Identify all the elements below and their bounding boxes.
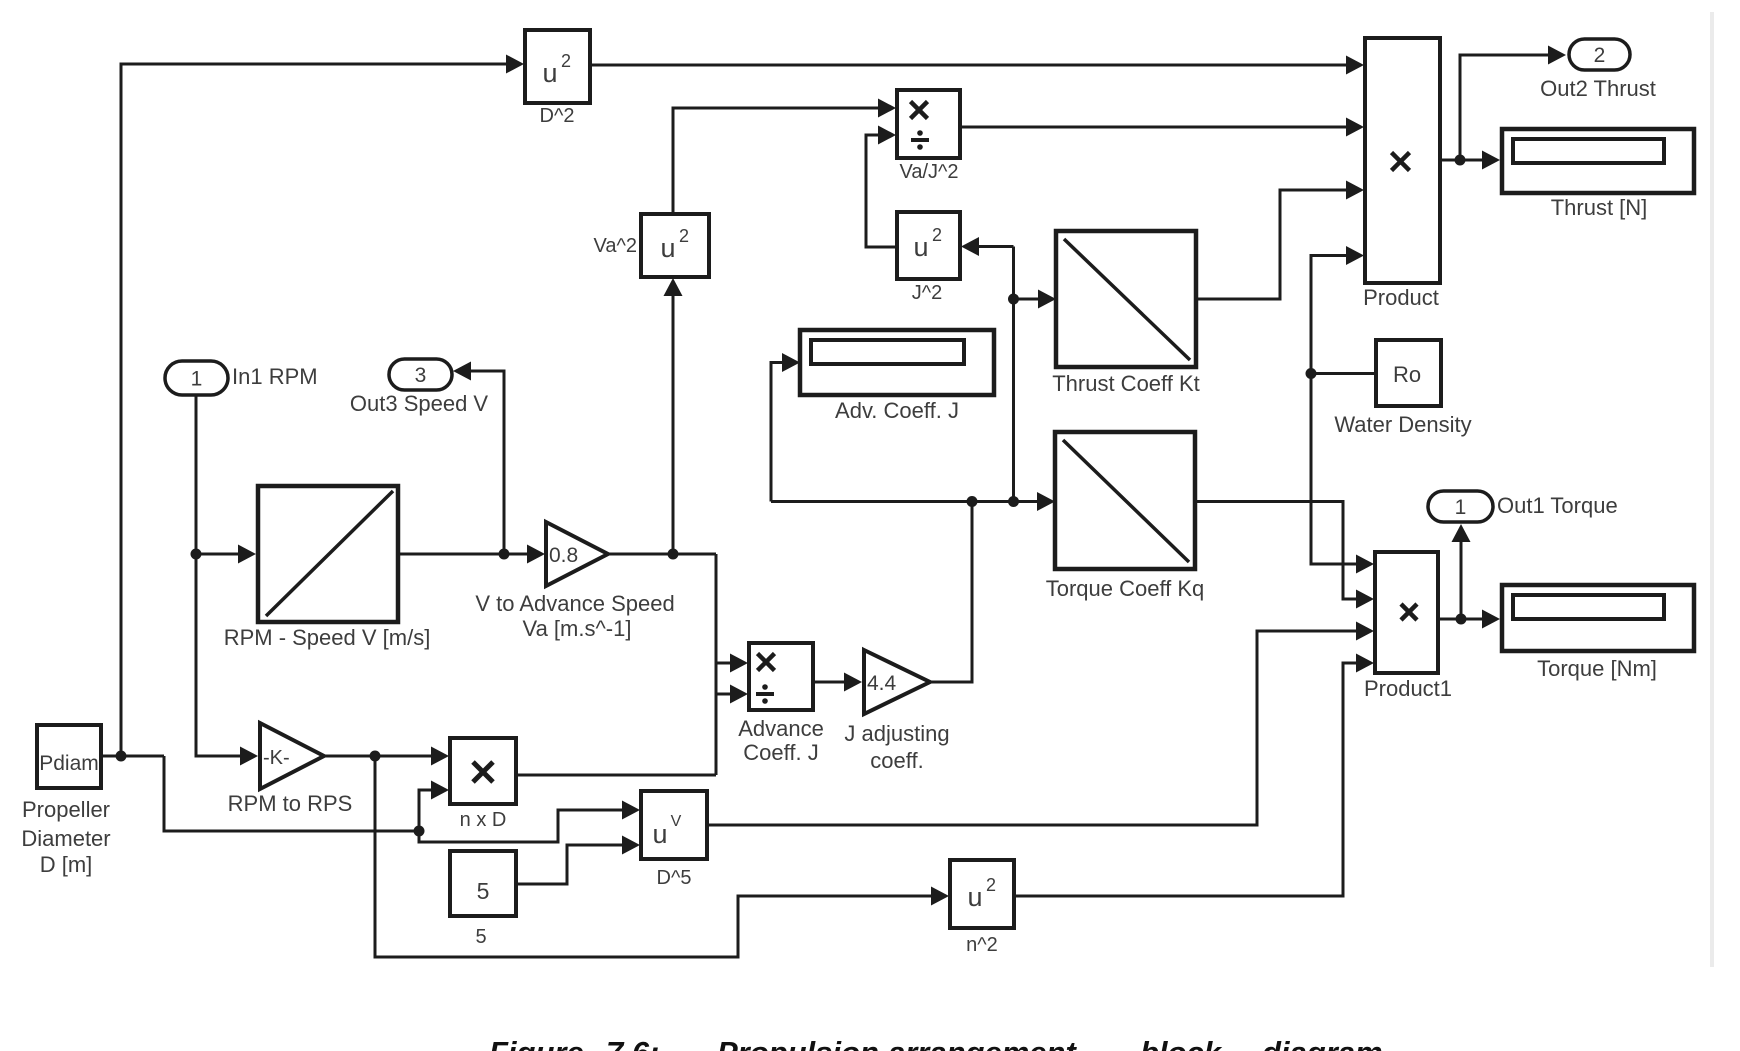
svg-text:arrangement: arrangement bbox=[888, 1035, 1077, 1051]
gain -K- RPM to RPS bbox=[228, 723, 353, 816]
block Product multiplier bbox=[1363, 38, 1440, 310]
svg-text:Va/J^2: Va/J^2 bbox=[899, 161, 958, 183]
svg-text:0.8: 0.8 bbox=[549, 544, 578, 567]
svg-text:Pdiam: Pdiam bbox=[39, 752, 99, 775]
svg-text:RPM to RPS: RPM to RPS bbox=[228, 791, 353, 816]
wire density up branch to Product input 4 bbox=[1311, 246, 1364, 374]
wire Product output junction bbox=[1440, 151, 1500, 170]
gain 4.4 J adjusting coeff bbox=[844, 650, 949, 773]
wire speed V up and left into Out3 bbox=[453, 362, 504, 555]
wire Product branch up to Out2 bbox=[1460, 46, 1566, 161]
block constant 5 bbox=[450, 851, 516, 948]
svg-text:Va^2: Va^2 bbox=[594, 235, 638, 257]
svg-text:5: 5 bbox=[477, 878, 490, 904]
svg-text:Figure: Figure bbox=[489, 1035, 584, 1051]
block Ro water density constant bbox=[1334, 340, 1471, 437]
svg-text:Thrust [N]: Thrust [N] bbox=[1551, 195, 1648, 220]
svg-text:u: u bbox=[967, 882, 982, 912]
svg-text:5: 5 bbox=[475, 926, 486, 948]
wire n^2 output to Product1 input 4 bbox=[1014, 654, 1374, 897]
svg-text:Ro: Ro bbox=[1393, 362, 1421, 387]
svg-text:Thrust Coeff Kt: Thrust Coeff Kt bbox=[1052, 371, 1200, 396]
port In1 RPM bbox=[165, 361, 318, 395]
svg-text:D [m]: D [m] bbox=[40, 852, 93, 877]
block Torque Coeff Kq lookup table bbox=[1046, 432, 1205, 601]
wire Va^2 output up and right into Va/J^2 input 1 bbox=[673, 99, 896, 215]
port Out3 Speed V bbox=[350, 359, 489, 416]
svg-text:block: block bbox=[1140, 1035, 1223, 1051]
wire 4.4 gain output up to J net bbox=[930, 502, 972, 683]
wire Pdiam D net down and right at y=831 bbox=[164, 756, 425, 837]
wire J net vertical up to J^2 and Thrust Coeff Kt bbox=[1008, 247, 1019, 502]
wire Va branch up into Va^2 squarer bbox=[664, 278, 683, 554]
svg-text:Product: Product bbox=[1363, 285, 1439, 310]
wire Va vertical feeding Advance Coeff inputs bbox=[715, 554, 718, 775]
svg-text:D^5: D^5 bbox=[657, 867, 692, 889]
wire Product1 output junction bbox=[1438, 610, 1500, 629]
wire In1 RPM down the left column to RPM-to-RPS gain bbox=[191, 395, 259, 766]
wire Thrust Coeff Kt output to Product input 3 bbox=[1196, 181, 1364, 300]
svg-text:Diameter: Diameter bbox=[21, 826, 110, 851]
wire branch left into flipped J^2 squarer bbox=[961, 237, 1014, 256]
svg-text:In1 RPM: In1 RPM bbox=[232, 364, 318, 389]
block Va/J^2 product-divide bbox=[897, 90, 960, 183]
svg-text:V to Advance Speed: V to Advance Speed bbox=[475, 591, 674, 616]
svg-text:Propeller: Propeller bbox=[22, 797, 110, 822]
wire Product1 branch up to Out1 bbox=[1452, 524, 1471, 619]
block n x D multiplier bbox=[450, 738, 516, 831]
svg-text:Propulsion: Propulsion bbox=[717, 1035, 879, 1051]
svg-text:3: 3 bbox=[415, 364, 427, 387]
wire branch into Advance Coeff input 2 bbox=[716, 685, 748, 704]
wire RPM-Speed output to 0.8 gain with junction bbox=[398, 545, 545, 564]
block Advance Coeff. J product-divide bbox=[738, 643, 824, 765]
wire J^2 output left then up into Va/J^2 input 2 bbox=[866, 126, 897, 248]
wire D^5 output to Product1 input 3 bbox=[707, 622, 1374, 826]
svg-text:Product1: Product1 bbox=[1364, 676, 1452, 701]
wire J net horizontal bbox=[771, 496, 1019, 507]
block Va^2 squarer u^2 bbox=[594, 214, 710, 277]
svg-text:V: V bbox=[671, 813, 682, 830]
wire Advance Coeff output to 4.4 gain bbox=[813, 673, 862, 692]
wire D branch up into n x D input 2 bbox=[419, 781, 449, 832]
wire branch into Thrust Coeff Kt input bbox=[1014, 290, 1057, 309]
block Pdiam propeller diameter constant bbox=[21, 725, 110, 877]
svg-text:u: u bbox=[913, 232, 928, 262]
block Thrust Coeff Kt lookup table bbox=[1052, 231, 1200, 396]
wire Torque Coeff Kq output to Product1 input 2 bbox=[1195, 502, 1374, 609]
svg-text:2: 2 bbox=[932, 225, 942, 245]
wire D^2 output to Product input 1 bbox=[590, 56, 1364, 75]
block Product1 multiplier bbox=[1364, 552, 1452, 701]
svg-text:2: 2 bbox=[679, 226, 689, 246]
wire D branch to D^5 input 1 bbox=[419, 801, 640, 843]
block J^2 squarer u^2 (flipped) bbox=[897, 212, 960, 304]
wire branch into Advance Coeff input 1 bbox=[716, 654, 748, 673]
svg-text:n^2: n^2 bbox=[966, 934, 998, 956]
block D^5 power u^V bbox=[641, 791, 707, 889]
wire J net left branch up into Adv. Coeff. J display bbox=[771, 353, 800, 502]
svg-text:u: u bbox=[542, 58, 557, 88]
wire RPM branch into RPM-Speed lookup bbox=[196, 545, 256, 564]
wire n x D output to same vertical bbox=[516, 774, 716, 777]
svg-text:Out2 Thrust: Out2 Thrust bbox=[1540, 76, 1656, 101]
block RPM - Speed V lookup bbox=[224, 486, 431, 650]
wire 0.8 gain output Va to corner bbox=[608, 549, 716, 560]
svg-text:2: 2 bbox=[986, 875, 996, 895]
svg-text:u: u bbox=[652, 819, 667, 849]
svg-text:Torque [Nm]: Torque [Nm] bbox=[1537, 656, 1657, 681]
block D^2 squarer u^2 bbox=[525, 30, 590, 127]
block Torque display bbox=[1502, 585, 1694, 681]
port Out2 Thrust bbox=[1540, 39, 1656, 101]
svg-text:J^2: J^2 bbox=[912, 282, 943, 304]
page edge faint vertical line bbox=[1710, 12, 1714, 967]
svg-text:Va [m.s^-1]: Va [m.s^-1] bbox=[523, 616, 632, 641]
svg-text:u: u bbox=[660, 233, 675, 263]
wire n down along bottom to n^2 squarer bbox=[375, 756, 949, 957]
wire RPM-to-RPS output n to n x D input 1 bbox=[324, 747, 449, 766]
caption Figure 7.6 (clipped at page bottom) bbox=[489, 1035, 1383, 1051]
block Thrust display bbox=[1502, 129, 1694, 220]
svg-text:-K-: -K- bbox=[263, 747, 290, 769]
wire Ro output to density junction bbox=[1306, 368, 1377, 379]
svg-text:diagram: diagram bbox=[1262, 1035, 1383, 1051]
svg-text:RPM - Speed V [m/s]: RPM - Speed V [m/s] bbox=[224, 625, 431, 650]
svg-text:1: 1 bbox=[1455, 496, 1467, 519]
block n^2 squarer u^2 bbox=[950, 860, 1014, 956]
svg-text:Adv. Coeff. J: Adv. Coeff. J bbox=[835, 398, 959, 423]
wire Pdiam output with junction to vertical riser bbox=[101, 751, 164, 762]
svg-text:2: 2 bbox=[1594, 44, 1606, 67]
svg-text:Out1 Torque: Out1 Torque bbox=[1497, 493, 1618, 518]
svg-text:2: 2 bbox=[561, 51, 571, 71]
svg-text:coeff.: coeff. bbox=[870, 748, 923, 773]
svg-text:Water Density: Water Density bbox=[1334, 412, 1471, 437]
port Out1 Torque bbox=[1428, 491, 1618, 522]
svg-text:1: 1 bbox=[191, 368, 203, 391]
svg-text:Coeff. J: Coeff. J bbox=[743, 740, 818, 765]
wire D to D^2 squarer (from Pdiam junction up and right) bbox=[121, 55, 524, 757]
wire J net right branch into Torque Coeff Kq bbox=[1014, 492, 1056, 511]
gain 0.8 V to Advance Speed bbox=[475, 522, 674, 641]
svg-text:Out3 Speed V: Out3 Speed V bbox=[350, 391, 489, 416]
wire Va/J^2 output to Product input 2 bbox=[960, 118, 1364, 137]
svg-text:4.4: 4.4 bbox=[867, 672, 897, 695]
wire density down branch to Product1 input 1 bbox=[1311, 374, 1374, 574]
svg-text:7.6:: 7.6: bbox=[606, 1035, 659, 1051]
block Adv. Coeff. J display bbox=[800, 330, 994, 423]
svg-text:D^2: D^2 bbox=[540, 105, 575, 127]
svg-text:n x D: n x D bbox=[460, 809, 507, 831]
svg-text:Advance: Advance bbox=[738, 716, 824, 741]
wire constant 5 into D^5 input 2 bbox=[516, 836, 640, 885]
svg-text:J adjusting: J adjusting bbox=[844, 721, 949, 746]
svg-text:Torque Coeff Kq: Torque Coeff Kq bbox=[1046, 576, 1205, 601]
